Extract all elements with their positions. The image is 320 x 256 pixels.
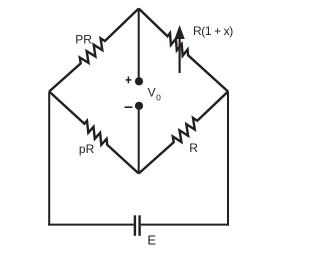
wire (bottom rail, battery to right corner)	[141, 224, 229, 226]
node + (top dot)	[135, 77, 143, 85]
svg-text:R(1 + x): R(1 + x)	[193, 24, 233, 38]
battery E	[135, 215, 140, 236]
resistor PR (top-left arm wire with zigzag)	[49, 9, 139, 92]
svg-text:E: E	[147, 233, 156, 248]
variable-resistor arrow on R(1+x)	[175, 25, 185, 73]
resistor R (bottom-right arm wire with zigzag)	[139, 92, 228, 174]
svg-text:pR: pR	[79, 142, 95, 156]
svg-text:R: R	[189, 141, 198, 155]
minus sign	[125, 106, 133, 108]
resistor R(1+x) (top-right arm wire with zigzag)	[139, 9, 228, 92]
wire (bottom rail, left segment to battery)	[48, 224, 134, 226]
node - (bottom dot)	[135, 102, 143, 110]
svg-text:PR: PR	[75, 33, 92, 47]
wire (center vertical, - node to bottom node)	[138, 106, 140, 174]
plus sign	[126, 77, 132, 84]
svg-text:0: 0	[156, 92, 161, 102]
wire (right node down to bottom rail)	[227, 92, 229, 226]
svg-text:V: V	[148, 86, 156, 100]
wire (center vertical, apex to + node)	[138, 9, 140, 82]
wire (left node down to bottom rail)	[48, 92, 50, 226]
resistor pR (bottom-left arm wire with zigzag)	[49, 92, 139, 174]
